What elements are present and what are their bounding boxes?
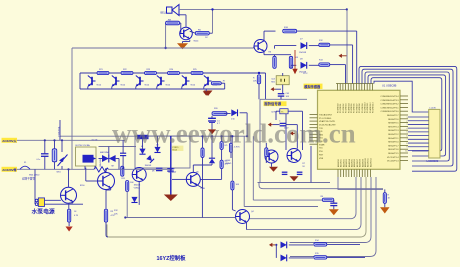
pin l7 [310,133,318,135]
wire [192,165,194,172]
wire [253,199,322,201]
wire [190,31,196,33]
wire [224,113,231,115]
resistor R6 [273,56,276,68]
wire [202,136,204,148]
pin r3 [400,103,408,105]
svg-text:SEG0/P1.5: SEG0/P1.5 [388,153,399,155]
box ring-source [258,99,331,182]
wire [108,147,110,155]
wire [327,256,365,258]
wire [107,177,366,237]
wire [286,124,297,126]
diode D10 [231,109,237,116]
wire [280,96,282,99]
svg-text:50k: 50k [225,161,228,163]
LCD module [429,109,440,158]
wire [203,87,205,89]
wire [230,136,232,143]
svg-text:LCD8080: LCD8080 [427,159,439,163]
transistor Q10 [287,149,301,163]
port AC220V-N [2,167,18,172]
crystal X2 [276,76,289,85]
pin l10 [310,143,318,145]
capacitor C4 electrolytic [208,117,216,119]
wire [54,140,56,149]
svg-text:AD8/KS8: AD8/KS8 [359,159,362,167]
pin l1 [310,114,318,116]
svg-text:P0.2/SEG2: P0.2/SEG2 [343,104,345,113]
pin b10 [361,169,363,177]
svg-text:振铃信号源: 振铃信号源 [264,101,282,106]
svg-text:4: 4 [406,128,407,130]
svg-text:VLCD0/P1.3: VLCD0/P1.3 [387,161,399,163]
wire [17,168,94,170]
label opto [172,146,184,151]
wire bus [359,66,457,171]
op-amp U1 microcontroller [318,90,401,169]
svg-text:AD4/KS4: AD4/KS4 [348,159,351,167]
resistor R21 [97,71,109,74]
svg-text:COM2/SEG13/P3.2: COM2/SEG13/P3.2 [380,104,399,106]
wire [310,146,312,183]
wire bus [365,72,449,161]
ground [177,43,188,49]
wire [209,32,212,34]
pin r1 [400,95,408,97]
wire [265,143,267,148]
pin lcd1 [408,116,429,118]
svg-text:P0.4/SEG4: P0.4/SEG4 [348,104,350,113]
svg-text:SEG5/P2.2: SEG5/P2.2 [388,134,399,136]
wire [296,125,298,149]
wire [45,203,84,205]
svg-text:SEG7/P2.4: SEG7/P2.4 [388,126,399,128]
wire [105,169,107,172]
transistor [204,76,212,87]
svg-text:P0.5/SEG5: P0.5/SEG5 [351,104,353,113]
pin t2 [339,84,341,91]
wire [157,136,159,148]
svg-text:16YZ控制板: 16YZ控制板 [157,254,187,262]
wire [282,73,284,76]
pin r18 [400,160,408,162]
svg-text:双路干簧管: 双路干簧管 [22,177,35,181]
wire [346,9,348,83]
wire [259,183,383,189]
pin r15 [400,148,408,150]
wire [111,72,113,75]
svg-text:AC220V零: AC220V零 [2,167,17,172]
capacitor C14 [156,167,163,169]
svg-text:SEG2/P1.7: SEG2/P1.7 [388,145,399,147]
capacitor C11 [282,171,288,173]
diode D4 [154,147,160,153]
svg-text:U1 USBC8B: U1 USBC8B [382,84,397,88]
speaker BELL [167,5,180,16]
svg-text:AD0/KS0: AD0/KS0 [337,159,340,167]
pin b13 [369,169,371,177]
capacitor C16 [41,153,49,155]
pin lcd5 [408,131,429,133]
wire [285,114,287,150]
wire row top bus [80,72,266,74]
resistor R16 [265,148,268,157]
svg-text:SEG10/P2.7: SEG10/P2.7 [387,115,399,117]
wire red [294,50,296,70]
wire [289,257,313,259]
pin t1 [337,84,339,91]
svg-text:COM3/SEG14/P3.3: COM3/SEG14/P3.3 [380,100,399,102]
box detector [135,136,190,168]
pin t9 [358,84,360,91]
pin r7 [400,118,408,120]
transistor Q3 [61,187,77,203]
svg-text:2: 2 [406,121,407,123]
wire [205,89,207,91]
wire [68,222,70,226]
svg-text:10: 10 [405,150,407,152]
svg-text:AD6/KS6: AD6/KS6 [353,159,356,167]
wire [185,15,187,27]
wire [172,178,186,180]
wire [274,55,276,57]
wire [309,64,319,66]
wire [221,82,224,84]
pin t13 [369,84,371,91]
wire [330,64,346,66]
pin lcd3 [408,123,429,125]
ground [204,91,213,97]
wire node rail [72,47,254,49]
resistor R11 [257,75,260,84]
wire [165,23,167,48]
wire [231,190,233,210]
svg-text:P0.2/SEG10: P0.2/SEG10 [365,102,367,113]
wire row bottom bus [80,88,225,90]
wire [156,72,158,75]
wire [276,110,280,112]
resistor R25 [201,148,204,158]
svg-text:P0.0/SEG8: P0.0/SEG8 [359,104,361,113]
svg-text:9: 9 [406,147,407,149]
pin l6 [310,130,318,132]
resistor RT1 zigzag [94,167,109,172]
pin r6 [400,114,408,116]
power port [290,131,293,135]
pin r14 [400,144,408,146]
pin t4 [345,84,347,91]
crystal Y1 [280,109,288,114]
svg-text:0.1u: 0.1u [37,159,41,161]
ground [164,195,178,202]
wire [125,217,235,219]
svg-text:P0.0/SEG0: P0.0/SEG0 [338,104,340,113]
wire [231,136,233,181]
wire bus [368,75,446,156]
svg-text:SEG9/P2.6: SEG9/P2.6 [388,119,399,121]
capacitor C15 [167,168,174,170]
wire [289,244,313,246]
svg-text:4K1: 4K1 [225,164,228,166]
svg-text:P0.1/SEG1: P0.1/SEG1 [340,104,342,113]
resistor R1 [52,149,57,162]
wire [85,168,87,181]
wire [135,87,137,89]
transistor Q7 [180,27,193,40]
transistor Q6 [236,210,250,224]
svg-text:9014: 9014 [194,41,200,43]
svg-text:R06: R06 [271,81,274,83]
wire bus [362,69,453,166]
pin l8 [310,137,318,139]
diode D5 [146,155,154,163]
capacitor C20 [280,122,287,124]
wire [327,243,360,245]
resistor R5 [195,31,209,35]
svg-text:V2W04: V2W04 [134,188,140,190]
pin b6 [351,169,353,177]
svg-text:AC220V火: AC220V火 [2,139,17,143]
wire [17,139,125,141]
wire [290,65,292,68]
resistor R26 [211,82,221,85]
svg-text:AD2/KS12: AD2/KS12 [369,158,372,167]
wire [302,111,304,150]
svg-text:5V GN: 5V GN [92,140,98,142]
relay contact [89,155,97,161]
svg-text:1N4148: 1N4148 [145,165,152,167]
resistor R17 [231,181,234,190]
svg-text:SEG3/P2.0: SEG3/P2.0 [388,142,399,144]
node junctions [67,168,69,170]
svg-text:P0.7/SEG7: P0.7/SEG7 [356,104,358,113]
ground [290,176,299,181]
wire [297,30,357,32]
wire [274,46,276,49]
triac D1 [102,155,109,162]
ground [329,209,339,215]
pin l9 [310,140,318,142]
wire [265,73,267,99]
capacitor C17 [120,152,126,154]
pin t14 [372,84,374,91]
wire [106,222,108,237]
resistor R25 [191,71,203,74]
wire [84,166,86,169]
wire [247,177,362,230]
wire [244,206,318,208]
resistor R7 [289,56,292,68]
transistor [136,76,144,87]
wire [180,22,181,24]
wire [142,139,144,149]
diode D12 [281,255,287,262]
wire [263,51,265,55]
wire [288,110,302,112]
pin b12 [367,169,369,177]
wire pin bar [336,83,374,85]
pin b11 [364,169,366,177]
pin t6 [350,84,352,91]
transistor Q8 [254,40,267,53]
resistor R22 [383,193,386,204]
power port [271,87,274,91]
svg-text:P0.5/SEG13: P0.5/SEG13 [373,102,375,113]
relay K1 [76,147,97,166]
pin lcd6 [408,135,429,137]
svg-text:P0.6/SEG6: P0.6/SEG6 [354,104,356,113]
pin lcd9 [408,146,429,148]
svg-text:水泵电源: 水泵电源 [32,208,55,216]
wire [290,177,376,257]
port AC220V-L [2,138,18,143]
wire [34,169,36,204]
transistor [182,76,190,87]
wire [221,136,223,141]
svg-text:VSS: VSS [319,158,324,160]
pin l2 [310,117,318,119]
resistor R3 [104,209,107,222]
resistor R23 [229,143,232,152]
svg-text:www.eeworld.com.cn: www.eeworld.com.cn [112,119,356,149]
wire [211,116,213,118]
svg-text:M7: M7 [112,166,115,168]
wire [111,87,113,89]
pin r5 [400,110,408,112]
wire [45,199,61,201]
resistor R23 [145,71,157,74]
diode D3 [139,149,145,155]
svg-text:BELL: BELL [161,12,168,15]
wire long rail [60,135,248,137]
pin l3 [310,120,318,122]
pin t3 [342,84,344,91]
wire [99,146,137,148]
ground [269,167,278,172]
svg-text:AD5/KS5: AD5/KS5 [351,159,354,167]
resistor R24 [220,142,223,150]
wire [263,31,265,41]
label sensor [304,84,323,89]
pin lcd2 [408,120,429,122]
wire [275,245,277,258]
resistor R19 [126,181,129,192]
resistor R20 [212,112,227,116]
pin lcd8 [408,142,429,144]
pin b4 [345,169,347,177]
svg-text:AD7/KS7: AD7/KS7 [356,159,359,167]
pin t12 [366,84,368,91]
ground [208,129,216,134]
wire [87,72,89,75]
transistor Q11 [186,172,200,186]
diode D6 [131,197,137,203]
diode D11 [281,242,287,249]
wire [116,158,119,160]
wire [181,87,183,89]
resistor R12 [319,43,330,46]
wire [68,169,70,187]
svg-text:SEG4/P2.1: SEG4/P2.1 [388,138,399,140]
pin t5 [347,84,349,91]
wire [99,158,103,160]
ground [66,227,73,232]
svg-text:AD9/KS9: AD9/KS9 [361,159,364,167]
wire [374,81,429,112]
svg-text:C04: C04 [271,78,274,80]
svg-text:P0.4/SEG12: P0.4/SEG12 [370,102,372,113]
resistor R24 [168,71,180,74]
resistor R18 [121,166,124,176]
svg-text:AD3/KS3: AD3/KS3 [345,159,348,167]
svg-text:SEG6/P2.3: SEG6/P2.3 [388,130,399,132]
svg-text:AD1/KS11: AD1/KS11 [367,158,370,167]
svg-text:P0.3/SEG3: P0.3/SEG3 [346,104,348,113]
wire [59,120,61,140]
wire [243,136,245,206]
svg-text:4.7K: 4.7K [111,215,116,217]
pin b5 [348,169,350,177]
wire [282,85,284,93]
wire [338,177,383,189]
wire [333,200,335,203]
pin b8 [356,169,358,177]
svg-text:AD0/KS10: AD0/KS10 [364,158,367,167]
svg-text:COM0/SEG11/P3.0: COM0/SEG11/P3.0 [381,111,400,113]
wire [87,87,89,89]
wire [109,168,171,170]
resistor R22 [121,71,133,74]
diode D8 [301,62,307,69]
svg-text:1N4148: 1N4148 [134,185,141,187]
capacitor C13 [330,202,337,204]
pin r9 [400,125,408,127]
pin r4 [400,106,408,108]
wire [333,206,335,210]
wire [211,136,213,158]
svg-text:6: 6 [406,135,407,137]
wire [246,222,248,230]
wire [203,72,205,75]
svg-text:SEG8/P2.5: SEG8/P2.5 [388,123,399,125]
power port [268,123,271,127]
svg-text:C9B: C9B [201,188,206,190]
wire [290,177,372,243]
pin lcd10 [408,149,429,151]
connector block [137,135,149,139]
wire [72,202,74,203]
power port [269,243,272,247]
svg-text:BC2W 12V-8A: BC2W 12V-8A [76,144,91,147]
pin t11 [364,84,366,91]
svg-text:TXD/ACK/INT: TXD/ACK/INT [319,114,333,117]
svg-text:AD1/KS1: AD1/KS1 [340,159,343,167]
svg-text:COM4/SEG15/P3.4: COM4/SEG15/P3.4 [380,96,399,98]
transistor Q5 [132,168,146,182]
wire [156,87,158,89]
triac Q2 [58,155,68,167]
svg-text:8: 8 [406,143,407,145]
pin b3 [342,169,344,177]
ground [380,207,390,213]
transistor [88,76,96,87]
pin lcd7 [408,138,429,140]
wire [61,140,63,152]
pin r13 [400,141,408,143]
wire [384,189,386,192]
svg-text:MAC97A6: MAC97A6 [100,151,109,154]
